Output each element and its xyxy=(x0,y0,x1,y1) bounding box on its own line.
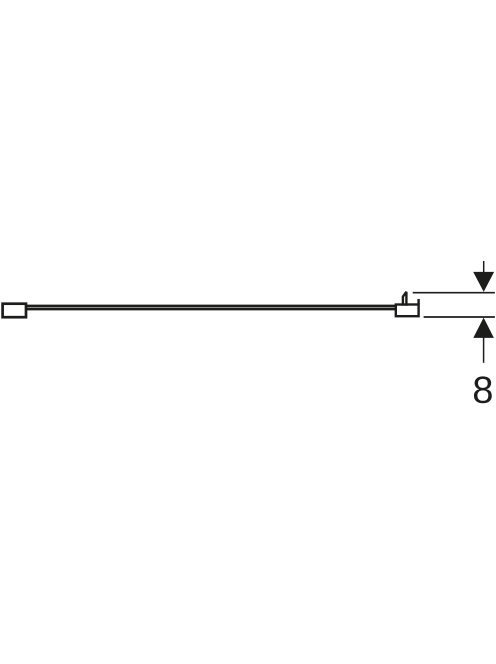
upper extension line xyxy=(413,292,495,294)
profile body (right fitting) xyxy=(396,305,419,317)
profile lip xyxy=(417,299,419,305)
wire (double-line sealing strip) xyxy=(26,305,396,308)
down arrow xyxy=(483,261,485,274)
left end block (sealing strip end piece) xyxy=(3,304,26,318)
dimension label 8 xyxy=(474,376,492,403)
lower extension line xyxy=(424,316,495,318)
up arrow xyxy=(473,318,494,338)
profile tab xyxy=(403,292,407,306)
